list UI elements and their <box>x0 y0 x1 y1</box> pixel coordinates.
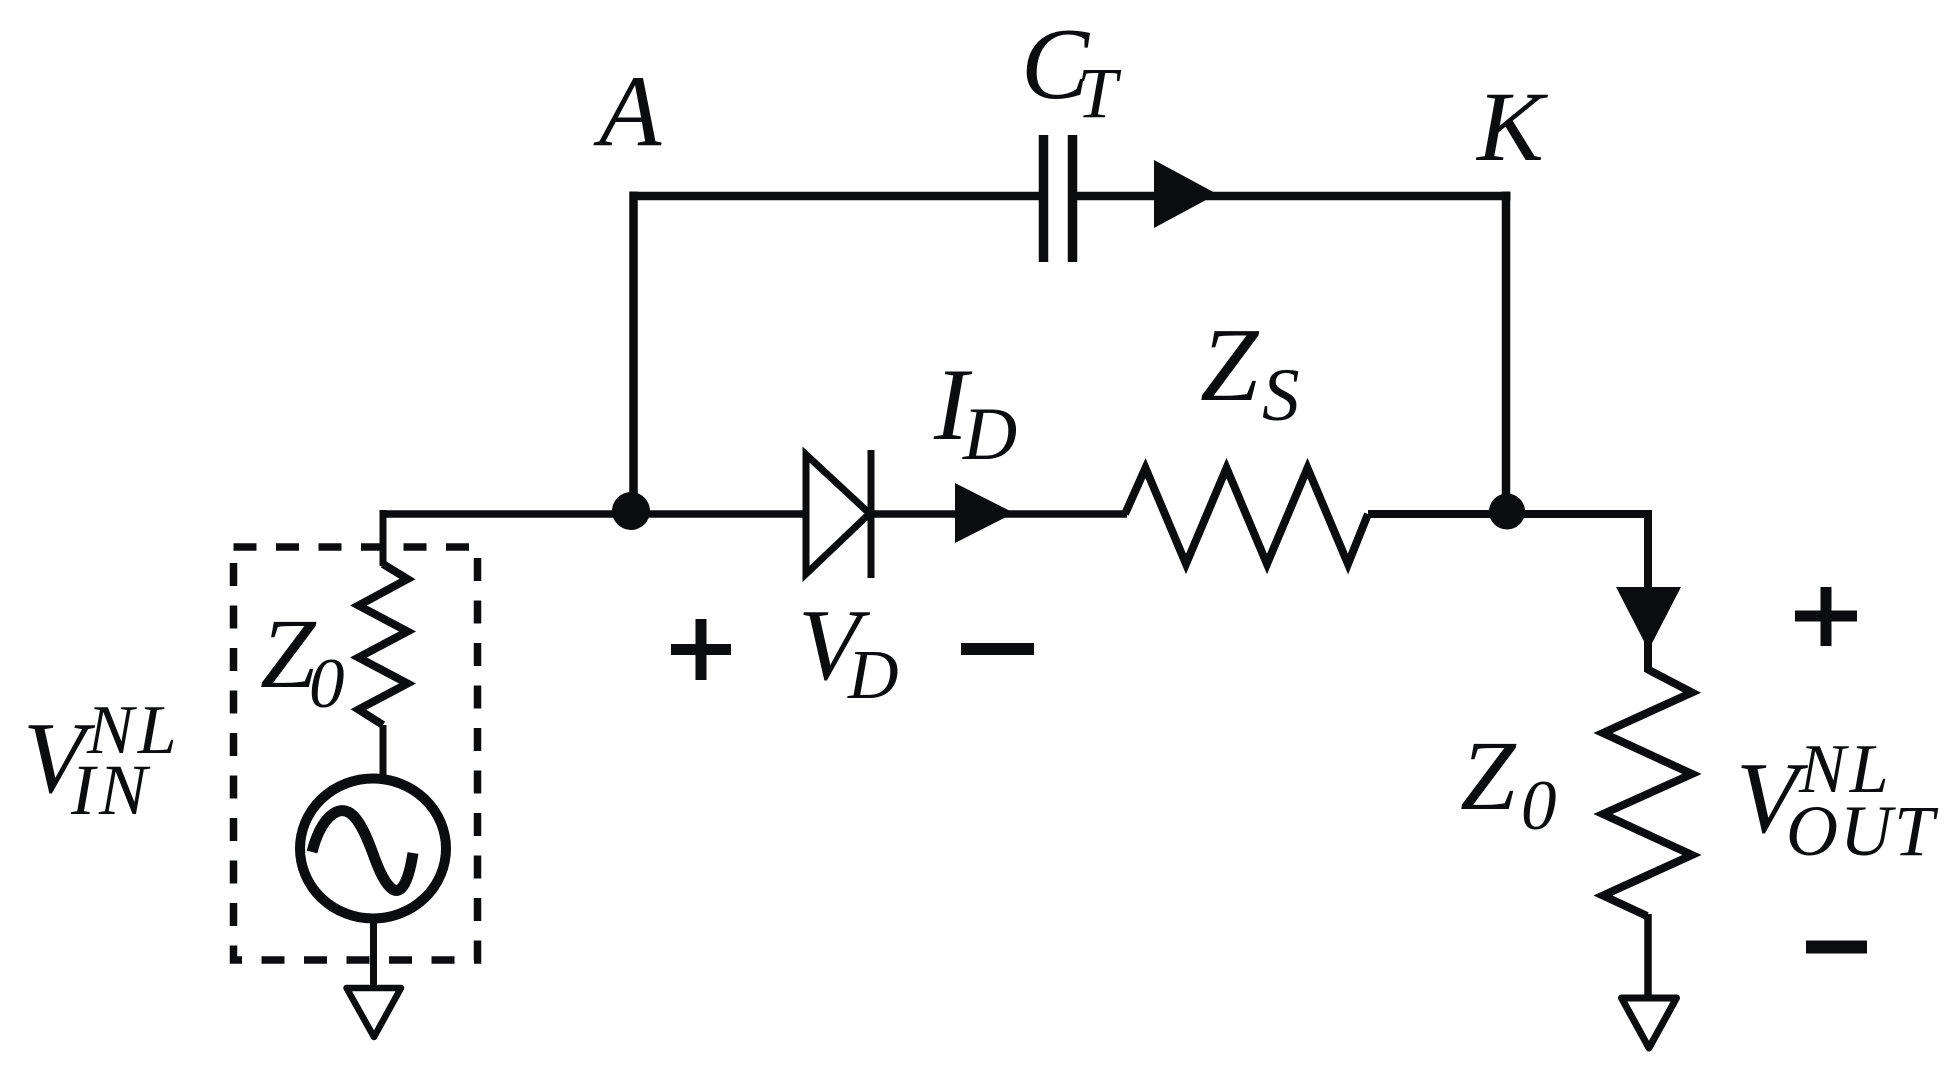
diode VD triangle <box>806 455 870 575</box>
minus VD <box>961 643 1034 655</box>
resistor ZS <box>1125 468 1368 564</box>
AC source circle <box>300 779 446 919</box>
ground left <box>347 988 402 1037</box>
capacitor CT plates <box>1039 135 1049 262</box>
wire: resistor ZS to right corner, down to arrow <box>1368 514 1648 590</box>
junction dot node K <box>1489 494 1525 530</box>
svg-text:OUT: OUT <box>1786 791 1939 871</box>
svg-text:Z: Z <box>1200 306 1260 423</box>
wire: diode to resistor ZS <box>871 510 1127 518</box>
svg-text:D: D <box>962 393 1017 476</box>
wire: main horizontal left segment <box>380 510 806 518</box>
svg-text:0: 0 <box>1521 767 1557 845</box>
wire: vertical at node K <box>1502 192 1511 513</box>
resistor Z0 right <box>1603 669 1692 916</box>
svg-text:D: D <box>847 637 899 714</box>
wire top: node A to capacitor <box>630 192 1042 201</box>
dashed source box <box>234 547 478 960</box>
ground right <box>1622 998 1677 1048</box>
diode VD cathode bar <box>868 450 875 578</box>
wire: resistor Z0 right to ground <box>1644 914 1652 996</box>
current arrow ID <box>955 483 1014 543</box>
wire: resistor Z0 left to AC source <box>380 725 387 781</box>
wire top: capacitor to node K <box>1075 192 1511 201</box>
svg-text:A: A <box>593 55 662 168</box>
junction dot node A <box>612 492 650 530</box>
plus VOUT <box>1795 587 1857 646</box>
plus VD <box>671 619 731 680</box>
svg-text:0: 0 <box>309 645 345 723</box>
wire: vertical at node A <box>629 192 638 513</box>
svg-text:T: T <box>1077 53 1122 133</box>
wire: left vertical into dashed box <box>380 510 387 566</box>
svg-text:IN: IN <box>70 750 151 830</box>
wire: AC source to ground <box>370 917 377 986</box>
wire: arrow to resistor Z0 right <box>1644 640 1652 672</box>
svg-text:S: S <box>1262 354 1300 437</box>
AC source sine <box>312 811 413 891</box>
resistor Z0 left <box>359 564 408 725</box>
minus VOUT <box>1806 941 1867 954</box>
svg-text:K: K <box>1475 71 1548 182</box>
svg-text:Z: Z <box>1460 720 1517 831</box>
current arrow down right <box>1616 587 1681 650</box>
current arrow on top wire <box>1154 160 1217 228</box>
